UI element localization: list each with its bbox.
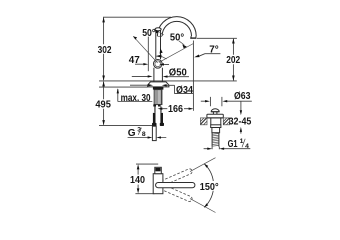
- lever knob: [155, 28, 161, 31]
- 495 up arrow: [102, 81, 105, 86]
- right swing line: [159, 44, 194, 63]
- 166 dimension: [158, 108, 163, 110]
- dashed swung spout upper: [155, 168, 193, 189]
- 140 extension lines: [135, 164, 158, 194]
- 50 deg right leader to lever (arrow on lever edge): [160, 48, 163, 53]
- max.30 leader: [118, 89, 153, 102]
- threaded shank: [154, 90, 162, 105]
- 47 extension line: [147, 37, 149, 72]
- svg-text:166: 166: [168, 104, 183, 115]
- deck section left (hatched): [200, 118, 207, 125]
- 302 down arrow: [102, 75, 105, 80]
- 166 extension line (outlet axis): [192, 41, 194, 111]
- deck bottom line left: [99, 86, 148, 88]
- spout outlet tube: [191, 36, 196, 38]
- arch left end tick: [157, 35, 162, 37]
- svg-text:150°: 150°: [200, 182, 219, 193]
- drain nut: [211, 125, 221, 128]
- Ø50 dimension: [132, 75, 189, 77]
- 495 down arrow: [102, 120, 105, 125]
- svg-text:32-45: 32-45: [229, 117, 252, 128]
- locknut under flange: [153, 87, 164, 90]
- top extension line: [103, 16, 171, 18]
- deck section right (hatched): [223, 118, 229, 125]
- left swing line: [133, 36, 157, 63]
- svg-text:Ø34: Ø34: [176, 85, 193, 96]
- sphere joint: [154, 60, 163, 69]
- 302 up arrow: [102, 17, 105, 22]
- deck top reference line: [99, 80, 237, 82]
- dimension chain line 302/495: [103, 18, 105, 125]
- svg-text:495: 495: [95, 100, 111, 111]
- spout arch outer: [157, 17, 196, 36]
- plug dome: [211, 109, 219, 112]
- base flange: [148, 82, 169, 87]
- G1 1/4 dimension: [212, 147, 219, 150]
- spout arch inner: [162, 21, 191, 36]
- body column: [154, 68, 163, 82]
- svg-text:4: 4: [245, 143, 249, 150]
- svg-text:50°: 50°: [142, 28, 155, 39]
- 50 deg left leader arrow to lever: [154, 29, 159, 33]
- shank bottom nuts: [153, 104, 156, 106]
- left swing arrowhead: [133, 36, 137, 39]
- swivel arc 150: [204, 164, 213, 208]
- 50 deg right leader to swing line: [179, 41, 184, 45]
- arc arrowheads: [204, 164, 208, 168]
- arrow bar on lever with tail: [156, 55, 162, 58]
- knob top view: [155, 167, 162, 173]
- 495 bottom extension line: [99, 124, 152, 126]
- spout top view: [156, 183, 195, 188]
- svg-text:140: 140: [130, 175, 145, 186]
- lever shaft: [156, 30, 161, 60]
- svg-text:50°: 50°: [170, 32, 184, 43]
- 32-45 dimension: [240, 101, 242, 133]
- svg-text:G1: G1: [228, 139, 238, 150]
- drain flange: [207, 114, 223, 118]
- dashed swung spout lower: [155, 182, 193, 203]
- hoses: [153, 113, 156, 123]
- 140 dimension line: [137, 169, 139, 190]
- swivel angle flank lines: [190, 158, 216, 213]
- hose end caps: [152, 123, 157, 126]
- 202 extension line from outlet: [197, 37, 237, 39]
- G3/8 tube: [152, 126, 156, 140]
- plug stem: [213, 112, 217, 115]
- svg-text:max. 30: max. 30: [121, 93, 151, 104]
- svg-text:Ø50: Ø50: [169, 67, 187, 78]
- svg-text:302: 302: [98, 45, 112, 56]
- drain threaded tube: [212, 133, 219, 147]
- Ø34 dimension arrows over flange: [130, 85, 193, 93]
- drain body through deck: [211, 118, 221, 125]
- svg-text:Ø63: Ø63: [234, 91, 251, 102]
- body top view: [153, 174, 163, 194]
- G3/8 dimension: [128, 137, 167, 139]
- hose necks: [155, 107, 162, 113]
- 47 dimension line and arrows: [135, 63, 169, 65]
